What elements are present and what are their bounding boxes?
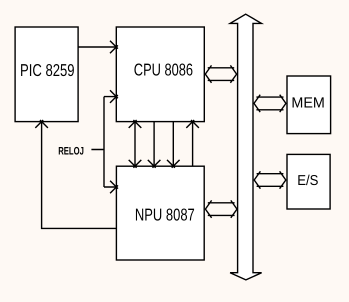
svg-text:E/S: E/S — [297, 173, 318, 189]
svg-text:RELOJ: RELOJ — [58, 146, 84, 158]
svg-text:PIC 8259: PIC 8259 — [20, 60, 75, 80]
svg-text:NPU 8087: NPU 8087 — [135, 205, 195, 225]
svg-text:MEM: MEM — [291, 96, 324, 112]
svg-text:CPU 8086: CPU 8086 — [134, 60, 193, 80]
